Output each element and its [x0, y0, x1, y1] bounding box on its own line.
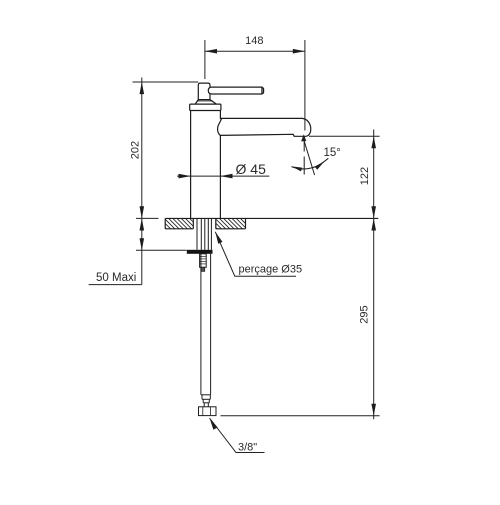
svg-text:Ø 45: Ø 45	[236, 161, 267, 177]
svg-text:148: 148	[245, 35, 263, 47]
svg-text:3/8": 3/8"	[238, 442, 257, 454]
svg-text:295: 295	[358, 305, 370, 323]
svg-text:perçage Ø35: perçage Ø35	[239, 264, 303, 276]
svg-text:202: 202	[129, 141, 141, 159]
svg-text:15°: 15°	[324, 147, 341, 159]
svg-text:122: 122	[359, 167, 371, 185]
svg-text:50 Maxi: 50 Maxi	[96, 272, 136, 284]
